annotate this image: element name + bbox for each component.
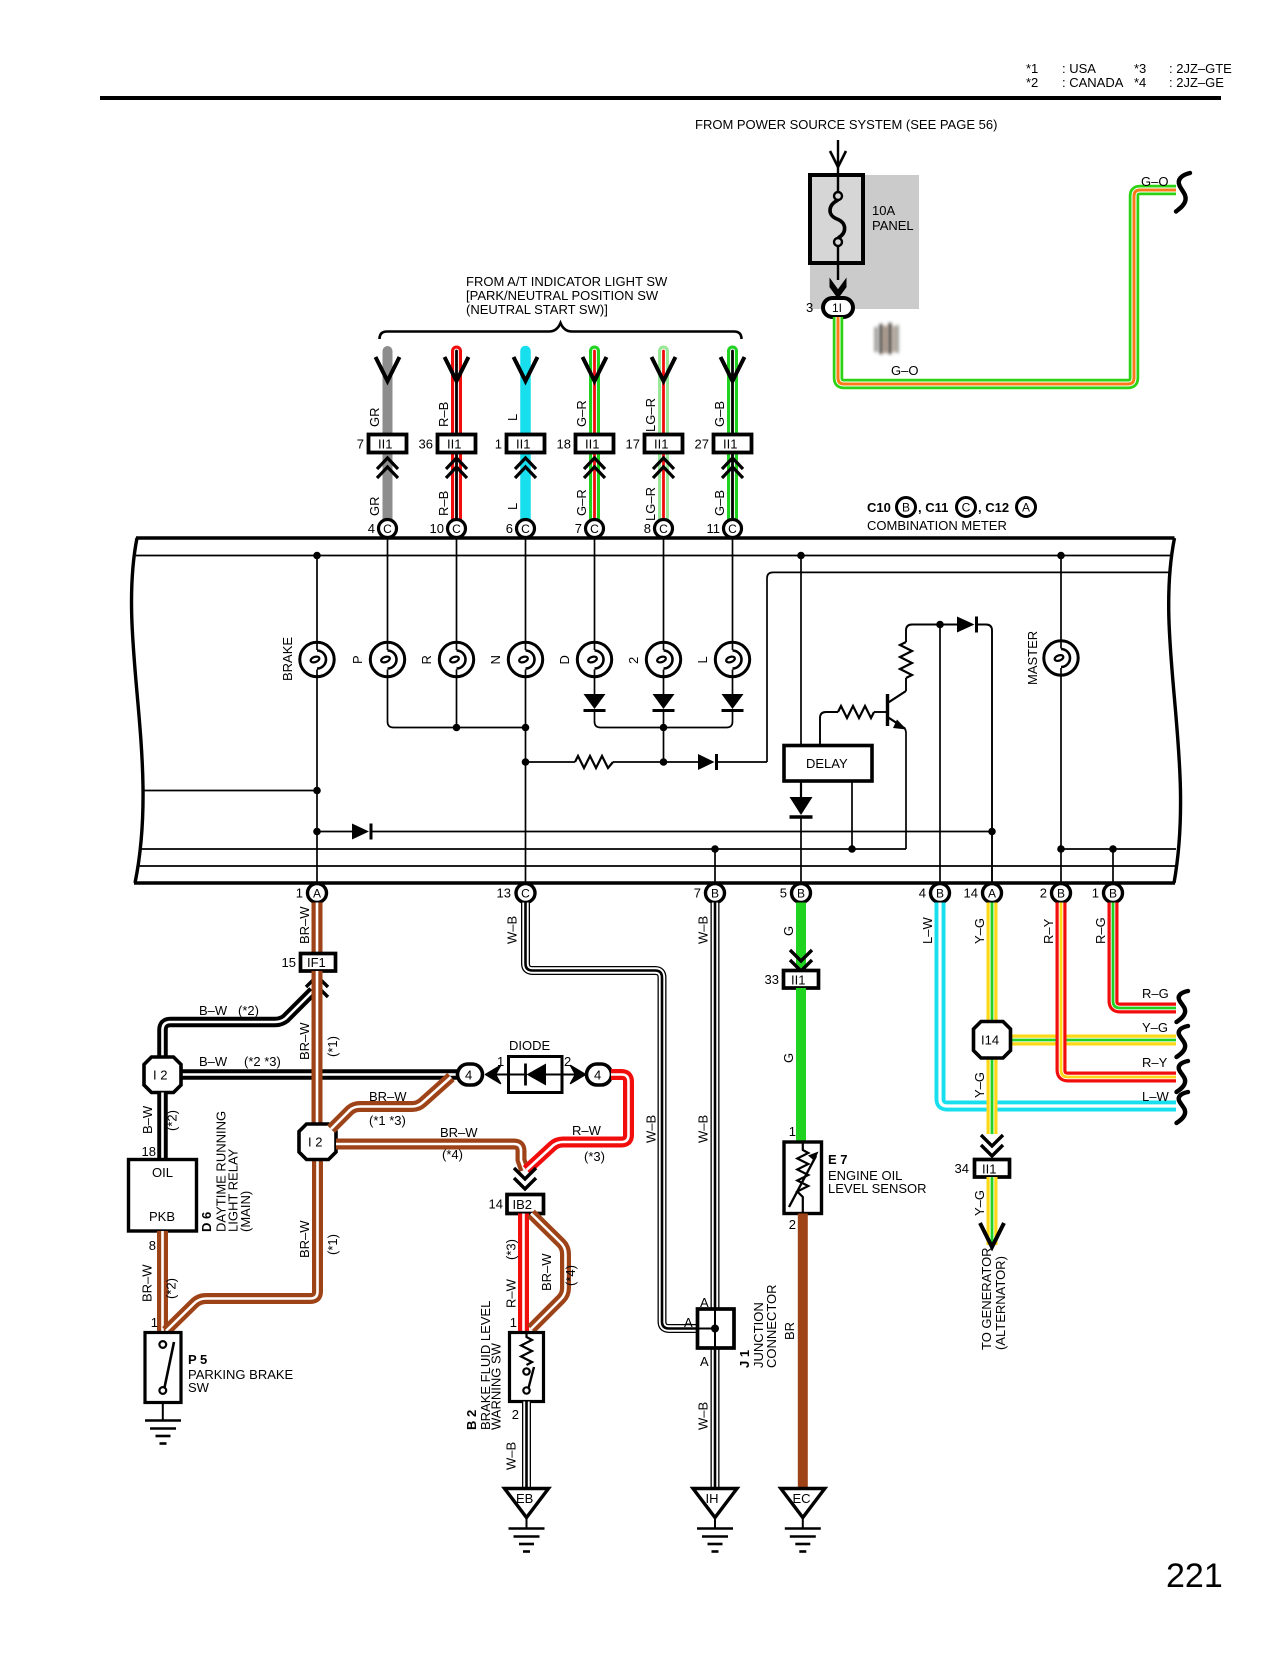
svg-text:R–B: R–B	[436, 402, 451, 427]
wire L-lamp output to right edge	[767, 572, 1171, 762]
wire delay output to emitter bus	[851, 781, 853, 849]
wire BR-W relay to P5	[157, 1231, 168, 1333]
svg-text:II1: II1	[723, 437, 737, 452]
svg-text:L: L	[505, 414, 520, 421]
svg-text:I14: I14	[981, 1033, 999, 1048]
svg-text:C: C	[383, 522, 392, 536]
wire delay diode down to pin 5	[800, 817, 802, 884]
arrowheads down on six wires	[376, 357, 745, 381]
svg-text:*3: *3	[1134, 61, 1146, 76]
wire 1B vertical	[1112, 849, 1114, 884]
svg-text:IB2: IB2	[513, 1197, 533, 1212]
lamp P	[370, 642, 404, 676]
svg-text:A: A	[1022, 501, 1030, 515]
wire 2 lamp to diode	[663, 670, 665, 696]
II1 pin numbers	[357, 437, 709, 452]
meter box outline	[132, 538, 1181, 883]
svg-text:1: 1	[510, 1315, 517, 1330]
svg-text:G–B: G–B	[712, 490, 727, 516]
svg-text:(*1): (*1)	[325, 1234, 340, 1255]
svg-text:W–B: W–B	[696, 1115, 711, 1143]
svg-text:A: A	[313, 887, 321, 901]
wire BR-W I2 right to IB2 (*4)	[336, 1144, 525, 1170]
svg-text:R–Y: R–Y	[1142, 1055, 1168, 1070]
svg-text:C: C	[521, 887, 530, 901]
svg-text:BR–W: BR–W	[539, 1253, 554, 1291]
svg-text:R–W: R–W	[572, 1123, 602, 1138]
svg-text:B–W: B–W	[199, 1054, 228, 1069]
wire Y-G II1 to generator arrow	[987, 1177, 998, 1245]
transistor Q (delay driver)	[886, 694, 889, 726]
svg-text:EC: EC	[793, 1491, 811, 1506]
svg-text:W–B: W–B	[696, 916, 711, 944]
svg-text:SW: SW	[188, 1380, 210, 1395]
diode collector to 14A	[957, 617, 975, 633]
chevrons up below II1	[377, 458, 743, 478]
wire R-W IB2 to B2 pin1	[518, 1214, 529, 1334]
svg-text:4: 4	[368, 521, 375, 536]
wire W-B B2 to EB ground	[522, 1402, 531, 1490]
wire delay supply vertical	[800, 556, 802, 747]
node dot R	[453, 724, 461, 732]
wire line832 with diode	[317, 831, 352, 833]
svg-text:BR–W: BR–W	[297, 906, 312, 944]
svg-text:R: R	[419, 655, 434, 664]
wire B-W from chevron to I2 left octagon	[163, 991, 314, 1057]
svg-text:(*1): (*1)	[325, 1036, 340, 1057]
wire collector up to diode line	[906, 625, 940, 643]
chevron down into II1 33	[790, 950, 812, 971]
wire line849 left segment	[140, 848, 906, 850]
svg-text:I 2: I 2	[153, 1068, 167, 1083]
svg-text:2: 2	[626, 657, 641, 664]
node dot delay output	[848, 845, 856, 853]
svg-text:IH: IH	[706, 1491, 719, 1506]
lamp BRAKE	[300, 642, 334, 676]
svg-text:(*2): (*2)	[165, 1110, 180, 1131]
wire line866	[138, 865, 1177, 867]
svg-text:8: 8	[644, 521, 651, 536]
chevron down into II1 34	[981, 1135, 1003, 1156]
svg-text:14: 14	[489, 1197, 503, 1212]
diode D indicator	[584, 694, 606, 709]
wire left feed line790	[143, 790, 317, 792]
wire line849 right segment	[1061, 848, 1176, 850]
svg-text:P: P	[350, 655, 365, 664]
svg-text:BR–W: BR–W	[140, 1264, 155, 1302]
wire N lamp down to pin 13	[525, 670, 527, 885]
svg-text:B: B	[1109, 887, 1117, 901]
continuation brace L-W	[1177, 1092, 1189, 1123]
svg-text:(MAIN): (MAIN)	[238, 1191, 253, 1232]
node dot 2 bus727	[660, 724, 668, 732]
svg-text:*1: *1	[1026, 61, 1038, 76]
svg-text:15: 15	[282, 955, 296, 970]
svg-text:1: 1	[497, 1054, 504, 1069]
resistor B2	[521, 1333, 532, 1366]
ground IH triangle	[693, 1489, 737, 1518]
svg-text:C10: C10	[867, 500, 891, 515]
svg-text:(NEUTRAL START SW)]: (NEUTRAL START SW)]	[466, 302, 608, 317]
wire emitter down	[905, 729, 906, 850]
diode 2 indicator	[653, 694, 675, 709]
svg-text:LEVEL SENSOR: LEVEL SENSOR	[828, 1181, 927, 1196]
wire R-W right oval to IB2	[527, 1075, 629, 1171]
svg-text:R–B: R–B	[436, 491, 451, 516]
svg-text:2: 2	[564, 1054, 571, 1069]
wire P R N to bus727	[388, 670, 525, 728]
svg-text:G–R: G–R	[574, 489, 589, 516]
wire 4B vertical	[939, 625, 941, 885]
wire BR-W IB2 bulge to B2 pin1 (*4)	[531, 1214, 566, 1330]
svg-text:L: L	[505, 503, 520, 510]
resistor base	[838, 706, 874, 718]
svg-text:: 2JZ–GTE: : 2JZ–GTE	[1169, 61, 1232, 76]
svg-text:PKB: PKB	[149, 1209, 175, 1224]
svg-text:B 2: B 2	[464, 1410, 479, 1430]
svg-text:FROM POWER SOURCE SYSTEM (SEE: FROM POWER SOURCE SYSTEM (SEE PAGE 56)	[695, 117, 997, 132]
node dot master feed	[1057, 552, 1065, 560]
diode box	[509, 1057, 563, 1093]
svg-text:10A: 10A	[872, 203, 895, 218]
top rule	[100, 96, 1221, 100]
connector oval 4 right	[587, 1064, 612, 1085]
node dot delay feed	[797, 552, 805, 560]
lamp 2	[646, 642, 680, 676]
svg-text:27: 27	[695, 437, 709, 452]
connector I2 octagon right	[299, 1124, 336, 1160]
wire delay to base resistor	[820, 712, 838, 746]
svg-text:*4: *4	[1134, 75, 1146, 90]
svg-text:EB: EB	[516, 1491, 533, 1506]
lamp MASTER	[1044, 641, 1078, 675]
lamp feed wires from C connectors	[388, 538, 733, 651]
svg-text:(*4): (*4)	[442, 1147, 463, 1162]
svg-text:B–W: B–W	[199, 1003, 228, 1018]
wire 7B vertical	[714, 849, 716, 884]
svg-text:A: A	[684, 1315, 693, 1330]
svg-text:1I: 1I	[832, 301, 842, 315]
node dot 14A line832	[988, 828, 996, 836]
fuse FUSE 10A PANEL box	[810, 175, 863, 263]
svg-text:D 6: D 6	[199, 1212, 214, 1232]
svg-text:CONNECTOR: CONNECTOR	[764, 1284, 779, 1368]
wire L	[520, 351, 531, 520]
diode brake line	[352, 824, 369, 840]
svg-text:C: C	[962, 501, 971, 515]
wire D lamp to diode	[594, 670, 596, 696]
svg-text:R–G: R–G	[1093, 917, 1108, 944]
svg-text:(ALTERNATOR): (ALTERNATOR)	[993, 1256, 1008, 1350]
svg-text:G–R: G–R	[574, 400, 589, 427]
switch B2 contacts	[523, 1368, 529, 1374]
svg-text:C: C	[728, 522, 737, 536]
svg-text:BR–W: BR–W	[297, 1022, 312, 1060]
svg-text:2: 2	[1040, 886, 1047, 901]
switch P5 parking brake box	[145, 1333, 181, 1403]
svg-text:GR: GR	[367, 408, 382, 428]
svg-text:1: 1	[495, 437, 502, 452]
svg-text:C: C	[659, 522, 668, 536]
svg-text:L: L	[695, 656, 710, 663]
wire from power source into fuse	[837, 140, 839, 178]
svg-text:R–G: R–G	[1142, 986, 1169, 1001]
svg-text:18: 18	[557, 437, 571, 452]
svg-text:2: 2	[512, 1407, 519, 1422]
wire R-Y from 2B to brace	[1061, 903, 1176, 1078]
sensor E7 engine oil level box	[784, 1142, 822, 1214]
svg-text:PANEL: PANEL	[872, 218, 914, 233]
ground EC triangle	[781, 1489, 825, 1518]
svg-text:N: N	[488, 655, 503, 664]
svg-text:LG–R: LG–R	[643, 398, 658, 432]
svg-text:A: A	[988, 887, 996, 901]
wire G II1 to E7	[796, 988, 806, 1142]
svg-text:GR: GR	[367, 497, 382, 517]
chevron up below IF1	[306, 976, 328, 997]
arrowhead into fuse	[830, 151, 846, 167]
svg-text:1: 1	[1092, 886, 1099, 901]
svg-text:(*2): (*2)	[164, 1278, 179, 1299]
svg-text:(*2 *3): (*2 *3)	[244, 1054, 281, 1069]
node dot N bus727	[522, 724, 530, 732]
svg-text:BR–W: BR–W	[369, 1089, 407, 1104]
wire 2 down to resistor line	[663, 728, 665, 763]
resistor collector	[905, 678, 907, 691]
diode to delay feed	[698, 754, 715, 770]
node dot 1B line849	[1109, 845, 1117, 853]
wire BR-W IF1 to I2 octagon	[312, 971, 323, 1126]
svg-text:36: 36	[419, 437, 433, 452]
svg-text:W–B: W–B	[505, 916, 520, 944]
continuation brace Y-G	[1177, 1026, 1189, 1057]
fuse element	[837, 175, 839, 192]
wire W-B from 13C down right down to J1	[526, 903, 699, 1329]
svg-text:18: 18	[142, 1144, 156, 1159]
svg-text:14: 14	[964, 886, 978, 901]
gray panel background	[810, 175, 919, 309]
svg-text:II1: II1	[654, 437, 668, 452]
svg-text:3: 3	[806, 300, 813, 315]
svg-text:(*3): (*3)	[584, 1149, 605, 1164]
svg-text:Y–G: Y–G	[972, 1072, 987, 1098]
svg-text:A: A	[700, 1295, 709, 1310]
svg-text:1: 1	[789, 1124, 796, 1139]
connector I14 octagon	[974, 1022, 1011, 1059]
svg-text:DIODE: DIODE	[509, 1038, 551, 1053]
svg-text:17: 17	[626, 437, 640, 452]
wire G-O from 1I down right and up to brace	[838, 190, 1176, 384]
lower wire labels	[367, 487, 727, 521]
connector J1 junction box	[698, 1309, 735, 1348]
relay D6 daytime running light relay box	[129, 1160, 197, 1232]
svg-text:FROM A/T INDICATOR LIGHT SW: FROM A/T INDICATOR LIGHT SW	[466, 274, 668, 289]
svg-text:C: C	[452, 522, 461, 536]
lamp D	[577, 642, 611, 676]
svg-text:1: 1	[151, 1315, 158, 1330]
svg-text:B: B	[797, 887, 805, 901]
svg-text:II1: II1	[585, 437, 599, 452]
upper wire labels GR R-B L G-R LG-R G-B	[367, 398, 727, 432]
svg-text:10: 10	[430, 521, 444, 536]
svg-text:BRAKE: BRAKE	[280, 637, 295, 681]
svg-text:7: 7	[575, 521, 582, 536]
svg-text:TO GENERATOR: TO GENERATOR	[979, 1247, 994, 1350]
svg-text:LG–R: LG–R	[643, 487, 658, 521]
switch B2 brake fluid level box	[510, 1333, 544, 1402]
node dot 2B line849	[1057, 845, 1065, 853]
arrowhead to right oval	[562, 1074, 580, 1076]
wire L lamp to diode	[732, 670, 734, 696]
arrowhead to generator	[980, 1223, 1004, 1247]
node dot brake line832	[313, 828, 321, 836]
node dot collector line	[936, 621, 944, 629]
DELAY box	[784, 746, 872, 782]
node dot 2 res line	[660, 758, 668, 766]
connector circles C row (pins 4,10,6,7,8,11)	[368, 520, 742, 538]
svg-text:COMBINATION METER: COMBINATION METER	[867, 518, 1007, 533]
arrowhead to left oval	[486, 1066, 501, 1084]
svg-text:G: G	[781, 926, 796, 936]
svg-text:: USA: : USA	[1062, 61, 1096, 76]
horizontal brace	[380, 323, 742, 339]
svg-text:J 1: J 1	[737, 1350, 752, 1368]
svg-text:A: A	[700, 1354, 709, 1369]
svg-text:G–O: G–O	[891, 363, 918, 378]
svg-text:II1: II1	[791, 973, 805, 988]
svg-text:4: 4	[594, 1068, 601, 1083]
svg-text:MASTER: MASTER	[1025, 631, 1040, 685]
svg-text:L–W: L–W	[1142, 1089, 1169, 1104]
svg-text:B: B	[711, 887, 719, 901]
svg-text:7: 7	[357, 437, 364, 452]
wire R-G from 1B to brace	[1113, 903, 1176, 1009]
svg-text:B: B	[1057, 887, 1065, 901]
node dot J1	[711, 1325, 719, 1333]
svg-text:11: 11	[707, 521, 721, 536]
svg-text:R–Y: R–Y	[1041, 918, 1056, 944]
ground EB triangle	[505, 1489, 549, 1518]
svg-text:33: 33	[765, 972, 779, 987]
svg-text:W–B: W–B	[696, 1402, 711, 1430]
diode symbol	[509, 1074, 528, 1076]
lamp L	[715, 642, 749, 676]
svg-text:OIL: OIL	[152, 1165, 173, 1180]
node dot brake feed	[313, 552, 321, 560]
svg-text:C: C	[521, 522, 530, 536]
svg-text:B: B	[902, 501, 910, 515]
svg-text:8: 8	[149, 1238, 156, 1253]
lamp R	[439, 642, 473, 676]
continuation brace G-O	[1176, 173, 1190, 212]
svg-text:W–B: W–B	[644, 1115, 659, 1143]
svg-text:Y–G: Y–G	[972, 1190, 987, 1216]
wire LG-R	[658, 351, 669, 520]
svg-text:BR–W: BR–W	[297, 1220, 312, 1258]
wire G-B	[727, 351, 738, 520]
svg-text:Y–G: Y–G	[972, 918, 987, 944]
chevron down into IB2	[514, 1168, 536, 1189]
svg-text:(*3): (*3)	[504, 1239, 519, 1260]
svg-text:II1: II1	[516, 437, 530, 452]
wire GR (to 7 II1)	[383, 351, 393, 520]
wire G from 5B to II1 33	[796, 903, 806, 972]
svg-text:1: 1	[296, 886, 303, 901]
svg-text:WARNING SW: WARNING SW	[489, 1342, 504, 1430]
continuation brace R-Y	[1177, 1061, 1189, 1092]
wire brake lamp vertical	[316, 556, 318, 651]
wire L-W from 4B to brace	[940, 903, 1176, 1107]
svg-text:B–W: B–W	[140, 1105, 155, 1134]
wire R-B	[451, 351, 462, 520]
svg-text:, C12: , C12	[978, 500, 1009, 515]
svg-text:E 7: E 7	[828, 1152, 848, 1167]
wire Y-G I14 to brace	[1011, 1035, 1176, 1046]
connector I2 octagon left	[144, 1057, 181, 1093]
wire D 2 L diode bus	[595, 711, 733, 728]
resistor line with resistor and diode	[526, 761, 576, 763]
svg-text:: CANADA: : CANADA	[1062, 75, 1124, 90]
svg-text:R–W: R–W	[504, 1278, 519, 1308]
svg-text:DELAY: DELAY	[806, 756, 848, 771]
svg-text:G–B: G–B	[712, 401, 727, 427]
svg-text:(*2): (*2)	[238, 1003, 259, 1018]
svg-text:(*4): (*4)	[563, 1265, 578, 1286]
svg-text:, C11: , C11	[918, 500, 948, 515]
wire Y-G from 14A through I14	[987, 903, 998, 1135]
wire G-R	[589, 351, 600, 520]
svg-text:I 2: I 2	[308, 1135, 322, 1150]
wire W-B from 7B down to IH	[711, 903, 720, 1490]
connector boxes II1 row (pins 7,36,1,18,17,27)	[369, 435, 752, 453]
svg-text:L–W: L–W	[920, 917, 935, 944]
svg-text:II1: II1	[982, 1162, 996, 1177]
svg-text:[PARK/NEUTRAL POSITION SW: [PARK/NEUTRAL POSITION SW	[466, 288, 659, 303]
svg-text:II1: II1	[378, 437, 392, 452]
continuation brace R-G	[1177, 991, 1189, 1022]
svg-text:Y–G: Y–G	[1142, 1020, 1168, 1035]
svg-text:BR: BR	[782, 1322, 797, 1340]
switch P5 contacts	[159, 1341, 166, 1348]
svg-text:: 2JZ–GE: : 2JZ–GE	[1169, 75, 1224, 90]
connector oval 4 left	[458, 1064, 483, 1085]
svg-text:G: G	[781, 1053, 796, 1063]
svg-text:II1: II1	[447, 437, 461, 452]
svg-text:4: 4	[919, 886, 926, 901]
wire BR-W I2 diagonal to diode oval (*1 *3)	[331, 1077, 451, 1129]
node dot 7B line849	[711, 845, 719, 853]
svg-text:G–O: G–O	[1141, 174, 1168, 189]
wire BR-W pin1A to IF1	[312, 903, 323, 955]
arrowhead into connector 1I	[830, 279, 846, 298]
svg-text:13: 13	[497, 886, 511, 901]
diode L indicator	[722, 694, 744, 709]
svg-text:D: D	[557, 655, 572, 664]
wire BR-W I2 branch down to P5	[166, 1159, 318, 1331]
svg-text:4: 4	[465, 1068, 472, 1083]
resistor (meter internal)	[575, 756, 613, 768]
node dot N res line	[522, 758, 530, 766]
wire B-W I2 to relay pin18	[157, 1093, 168, 1161]
svg-text:BR–W: BR–W	[440, 1125, 478, 1140]
svg-text:(*1 *3): (*1 *3)	[369, 1113, 406, 1128]
svg-text:2: 2	[789, 1217, 796, 1232]
svg-text:B: B	[936, 887, 944, 901]
svg-text:221: 221	[1166, 1557, 1223, 1595]
wire B-W I2 to diode oval	[163, 1069, 458, 1080]
svg-text:P 5: P 5	[188, 1352, 207, 1367]
wire BR E7 to EC	[798, 1214, 808, 1490]
